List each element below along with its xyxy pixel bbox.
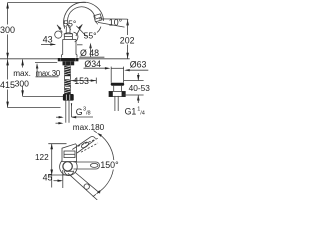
angle 150 arc bottom arrow	[93, 194, 96, 196]
angle 55 deg vertex ray	[76, 26, 86, 37]
svg-text:55°: 55°	[84, 31, 97, 41]
dim 153	[71, 79, 77, 81]
angle 10 deg wedge	[99, 18, 128, 20]
G 3/8 leader tick	[71, 104, 73, 117]
svg-text:Ø34: Ø34	[84, 59, 101, 69]
angle 55 deg upper right arrow	[78, 24, 82, 29]
angle 150 deg arc	[99, 134, 114, 163]
spout inner arc	[68, 7, 96, 30]
svg-text:G1: G1	[125, 107, 137, 117]
wire 45 target line	[62, 170, 64, 188]
wire max.300 bottom reference line	[23, 95, 66, 97]
label max.180 with arrow	[56, 122, 62, 124]
top view spout bar	[74, 161, 97, 163]
svg-text:45: 45	[43, 173, 53, 183]
locknut below deck	[63, 61, 75, 65]
top view spout swung up position	[72, 137, 91, 150]
waste body cylinder	[110, 67, 112, 83]
svg-text:40-53: 40-53	[129, 83, 150, 93]
dim 122 bottom reference line	[48, 174, 66, 176]
top view handle	[62, 144, 77, 162]
angle 55 deg upper left arrow	[57, 25, 61, 30]
svg-text:153: 153	[74, 76, 89, 86]
lever knob left circle	[55, 31, 62, 38]
svg-text:max.180: max.180	[73, 123, 105, 132]
dim arrows at hoses for G 3/8	[56, 116, 62, 118]
shank thread hatch	[65, 66, 71, 93]
svg-text:Ø 48: Ø 48	[80, 48, 99, 58]
waste flange dark band	[111, 83, 125, 86]
label 150 deg	[100, 160, 120, 170]
waste tailpipe	[114, 96, 116, 111]
deck underside line	[35, 62, 57, 64]
svg-text:max.: max.	[13, 69, 31, 78]
top view handle swung dashed	[78, 138, 98, 146]
angle 55 deg lower arc	[74, 32, 78, 42]
supply nut dark	[63, 94, 74, 101]
wire outlet tip mark	[96, 22, 97, 24]
top view body inner circle	[63, 162, 72, 171]
supply hoses	[65, 101, 67, 123]
svg-text:G: G	[76, 107, 83, 117]
shank tube	[64, 66, 66, 94]
dim 300 vertical line	[7, 3, 9, 25]
svg-text:10°: 10°	[109, 17, 122, 27]
wire top reference line	[8, 2, 86, 4]
svg-text:43: 43	[43, 35, 53, 45]
svg-text:/8: /8	[86, 111, 91, 117]
angle 150 arc top arrow	[94, 131, 97, 133]
svg-text:300: 300	[15, 78, 30, 88]
faucet base flange	[61, 55, 63, 58]
waste nut	[109, 91, 125, 96]
dim 122 vertical line	[51, 144, 53, 188]
svg-text:150°: 150°	[100, 160, 118, 170]
base on deck dark band	[58, 58, 79, 61]
shank thread dark body	[65, 66, 71, 77]
svg-text:415: 415	[0, 80, 15, 90]
wire 415 bottom reference line	[8, 107, 61, 109]
dim 202 vertical line	[126, 19, 129, 25]
top view aerator oval	[90, 163, 98, 167]
svg-text:122: 122	[35, 153, 49, 162]
top view body outer circle	[60, 158, 78, 176]
deck surface line	[0, 58, 130, 60]
svg-text:/4: /4	[140, 111, 145, 117]
top view hook below body	[64, 171, 73, 176]
dim 122 reference top line	[48, 143, 66, 145]
svg-text:Ø63: Ø63	[130, 60, 147, 70]
spout outlet mousseur	[94, 14, 102, 22]
waste neck	[113, 86, 115, 92]
top view spout swung down position	[68, 173, 97, 200]
wire 43 right-side segment	[77, 44, 83, 46]
faucet body cylinder	[62, 39, 64, 54]
svg-text:202: 202	[120, 35, 135, 45]
dim 40-53	[137, 73, 139, 81]
svg-text:300: 300	[0, 25, 15, 35]
lever stem	[65, 27, 67, 34]
dim max.300 vertical line	[22, 59, 24, 67]
spout outer arc	[64, 2, 104, 28]
cartridge collar	[64, 34, 72, 40]
svg-text:55°: 55°	[63, 18, 76, 28]
dim 415 vertical line	[7, 59, 9, 79]
